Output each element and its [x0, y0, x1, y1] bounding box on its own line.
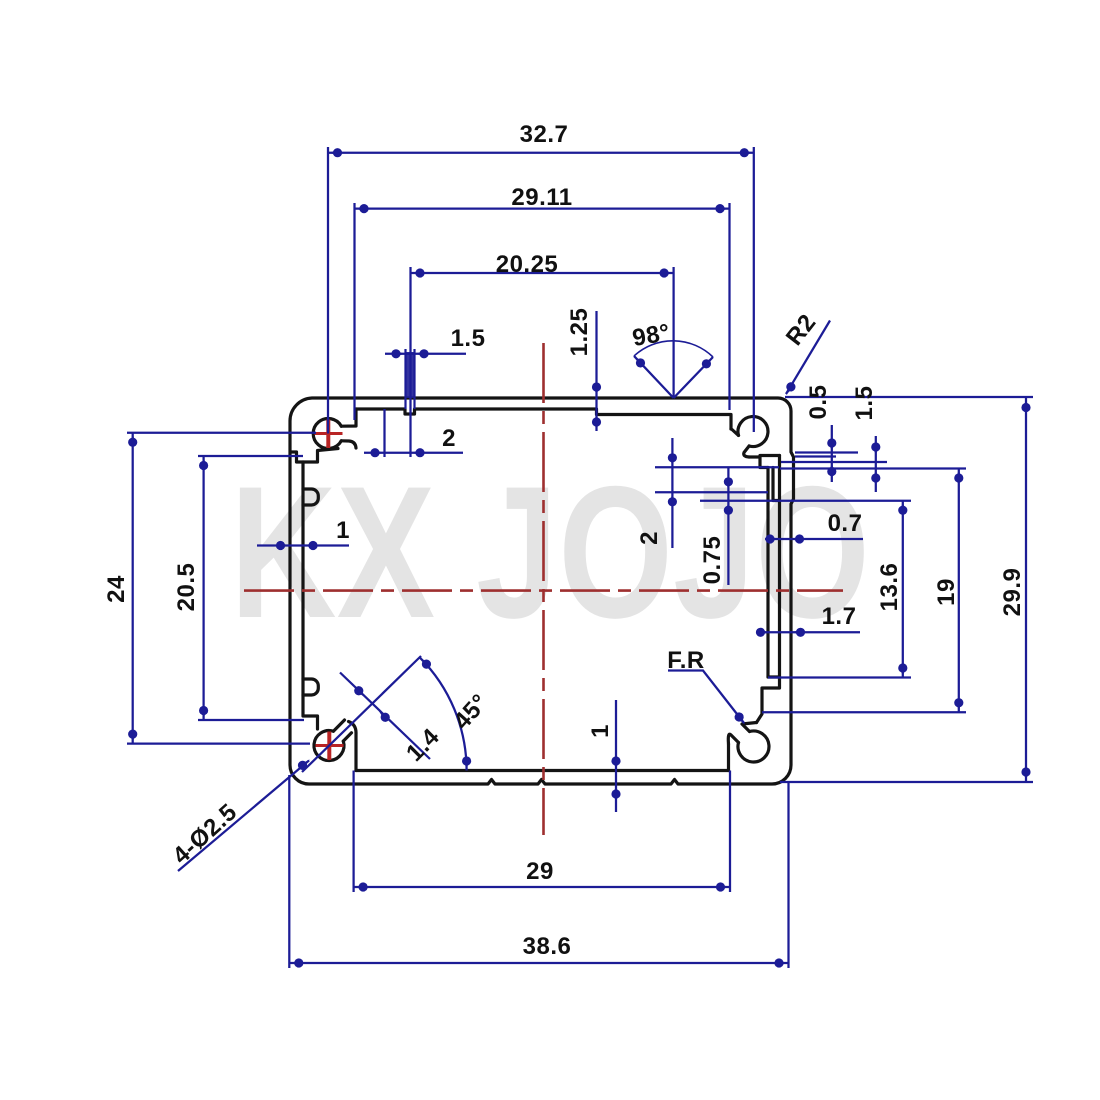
dim 32.7 [328, 147, 754, 434]
svg-text:2: 2 [636, 531, 663, 545]
32.7 [328, 148, 342, 157]
dim 20.5 [198, 456, 304, 720]
svg-text:1: 1 [336, 517, 350, 544]
1.5 right (outside) [871, 442, 880, 456]
svg-text:0.7: 0.7 [828, 510, 863, 537]
dim 1 bottom [615, 700, 617, 812]
bottom wall inner line [356, 769, 729, 772]
dim 20.25 [411, 267, 674, 457]
45deg diagonal line A [302, 656, 421, 772]
right wall inner main line [757, 456, 780, 723]
1.4 arrows (outside) [352, 684, 368, 700]
svg-text:24: 24 [103, 575, 130, 603]
thick blue bar of dim 1.5 [405, 352, 415, 398]
0.7 (outside) [765, 534, 779, 543]
leader 4-dia2.5 [178, 761, 309, 872]
top wall inner line with notch and step [356, 409, 731, 429]
svg-text:F.R: F.R [667, 647, 705, 674]
bottom-right boss circle (C gap facing up-left) [738, 731, 769, 762]
leader F.R [668, 671, 744, 724]
svg-text:1: 1 [587, 724, 614, 738]
29.9 [1021, 398, 1030, 412]
bottom-left boss mouth lips and channel [333, 720, 351, 741]
left inner wall with two rib bumps [303, 462, 318, 729]
dim 0.7 [765, 538, 863, 540]
1.5 top (outside) [391, 349, 405, 358]
1.25 (outside vertical) [592, 382, 601, 396]
bottom-left boss circle (C shape, gap facing up-right 45deg) [314, 731, 344, 761]
top-right boss mouth lips [731, 429, 749, 457]
dim 29 [354, 771, 730, 893]
R2 arrow [782, 381, 797, 398]
top-left boss channel and mouth [341, 409, 356, 426]
red cross top-left boss [315, 420, 344, 761]
1.5 thick ext bar [406, 349, 415, 409]
20.25 [411, 268, 425, 277]
svg-text:1.7: 1.7 [822, 603, 857, 630]
4-dia2.5 arrow [296, 756, 313, 772]
svg-text:0.75: 0.75 [699, 536, 726, 585]
45 arc arrows [462, 756, 471, 770]
0.75 (outside) [724, 477, 733, 491]
right wall ledge below top-right boss [749, 456, 780, 468]
svg-text:38.6: 38.6 [523, 933, 572, 960]
leader R2 [786, 321, 830, 395]
svg-text:1.5: 1.5 [851, 386, 878, 421]
dim 38.6 [289, 775, 788, 968]
dim 1.25 [595, 311, 597, 431]
top-left boss pedestal and corner notch [292, 449, 339, 463]
98 deg arrows [631, 353, 647, 370]
F.R arrow [733, 711, 749, 728]
svg-text:19: 19 [933, 578, 960, 606]
vertical centerline [542, 343, 545, 835]
20.5 [199, 456, 208, 470]
dim 29.11 [355, 203, 730, 420]
svg-text:32.7: 32.7 [520, 121, 569, 148]
top-right boss circle (C gap facing down-left) [738, 417, 768, 447]
bottom-right boss mouth and step to wall [728, 723, 756, 745]
svg-text:1.5: 1.5 [451, 325, 486, 352]
dim 2 right [655, 438, 779, 548]
angle 98 rays [634, 356, 713, 398]
dim 2 top-left [364, 409, 463, 457]
svg-text:29.11: 29.11 [511, 184, 572, 211]
svg-text:0.5: 0.5 [805, 385, 832, 420]
dim 19 [762, 469, 966, 713]
1 left (outside) [276, 541, 290, 550]
2 top-left (outside) [370, 448, 384, 457]
dim 24 [127, 433, 316, 744]
2 right (outside) [668, 453, 677, 467]
dim 1.7 [756, 631, 860, 633]
svg-text:29.9: 29.9 [999, 568, 1026, 617]
svg-text:29: 29 [526, 858, 554, 885]
horizontal centerline [244, 589, 843, 592]
29.11 [355, 204, 369, 213]
1 bottom (outside) [611, 756, 620, 770]
right wall bottom step [768, 675, 780, 678]
red cross bottom-left boss [327, 732, 331, 761]
dim 1.5 right [875, 436, 877, 492]
svg-text:20.25: 20.25 [496, 251, 559, 278]
dim 0.5 [781, 425, 887, 482]
45deg arc [420, 657, 467, 770]
outer boundary [290, 398, 794, 784]
svg-text:2: 2 [442, 425, 456, 452]
dim 13.6 [768, 501, 911, 678]
dim 1.5 top [385, 353, 466, 355]
38.6 [289, 958, 303, 967]
29 [354, 882, 368, 891]
top-left boss circle (C shape, gap facing right) [313, 419, 341, 449]
svg-text:13.6: 13.6 [876, 563, 903, 612]
13.6 [898, 501, 907, 515]
24 [128, 433, 137, 447]
svg-text:20.5: 20.5 [173, 563, 200, 612]
dim 1 left [257, 544, 349, 546]
19 [954, 469, 963, 483]
0.5 (outside) [827, 438, 836, 452]
dim 0.75 [700, 468, 911, 585]
svg-text:1.25: 1.25 [566, 308, 593, 357]
dim 29.9 [780, 397, 1033, 782]
line B perpendicular [340, 673, 430, 760]
right wall groove lines [768, 468, 780, 678]
1.7 (outside) [756, 628, 770, 637]
